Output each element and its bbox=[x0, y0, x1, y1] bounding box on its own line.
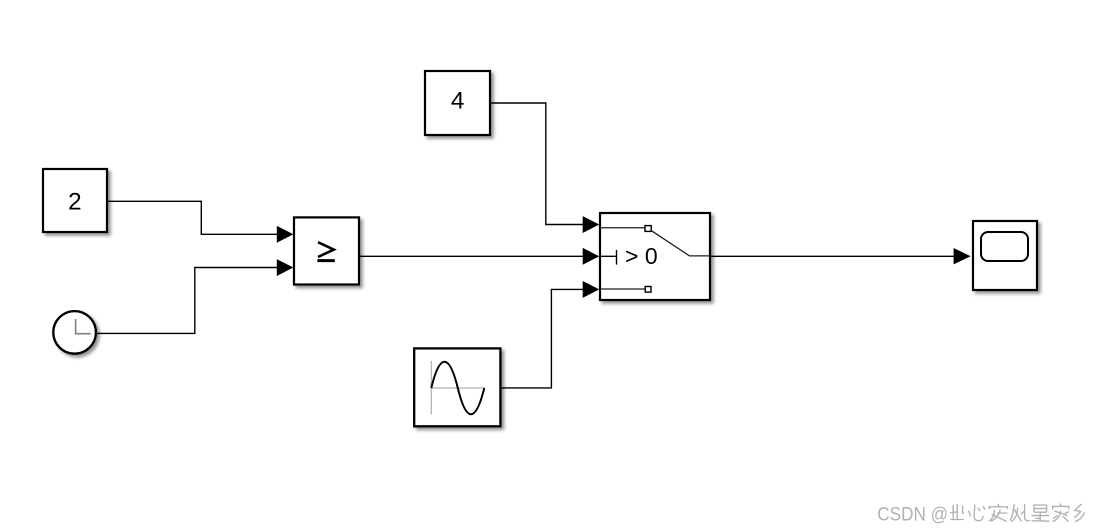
clock block bbox=[53, 311, 96, 354]
switch block with criteria > 0 bbox=[600, 213, 710, 300]
scope screen bbox=[981, 232, 1028, 261]
wire from sine wave to switch input 3 bbox=[501, 289, 584, 388]
sine wave block bbox=[414, 348, 500, 426]
wire from clock to relational operator input 2 bbox=[97, 268, 278, 334]
watermark CJK glyph an bbox=[989, 504, 1007, 522]
svg-text:> 0: > 0 bbox=[625, 243, 658, 269]
wire from switch output to scope bbox=[709, 255, 955, 257]
constant block C2 value 4 bbox=[425, 71, 490, 135]
watermark CJK glyph jia bbox=[1053, 504, 1069, 522]
arrowhead at relational operator input 2 bbox=[277, 259, 294, 276]
switch internal port 3 line bbox=[601, 288, 645, 290]
sine icon curve bbox=[431, 362, 484, 414]
switch internal port 1 line bbox=[601, 227, 645, 229]
switch selector diagonal bbox=[652, 231, 710, 256]
svg-text:CSDN @: CSDN @ bbox=[877, 504, 948, 526]
switch internal port 3 square bbox=[645, 287, 651, 293]
greater-or-equal symbol bbox=[318, 242, 334, 257]
clock hands bbox=[76, 319, 91, 334]
sine icon axes bbox=[431, 361, 484, 415]
svg-text:2: 2 bbox=[68, 188, 82, 215]
arrowhead at scope input bbox=[954, 248, 971, 264]
arrowhead at relational operator input 1 bbox=[277, 226, 294, 243]
switch internal port 1 square bbox=[645, 226, 651, 232]
constant block C1 value 2 bbox=[43, 169, 107, 232]
scope block bbox=[973, 221, 1037, 290]
watermark CJK glyph xiang bbox=[1074, 504, 1084, 522]
watermark CJK glyph ci bbox=[950, 504, 964, 520]
wire from constant 2 to relational operator input 1 bbox=[107, 201, 278, 234]
relational operator block >= bbox=[294, 217, 359, 284]
wire from constant 4 to switch input 1 bbox=[490, 103, 584, 225]
arrowhead at switch input 1 bbox=[583, 216, 600, 233]
svg-text:4: 4 bbox=[451, 88, 465, 115]
switch internal port 2 line with tick bbox=[601, 250, 617, 265]
watermark CJK glyph chu bbox=[1010, 504, 1029, 522]
watermark CJK glyph shi bbox=[1031, 505, 1049, 521]
arrowhead at switch input 2 bbox=[583, 248, 600, 265]
watermark CJK glyph xin bbox=[968, 505, 984, 521]
arrowhead at switch input 3 bbox=[583, 281, 600, 298]
wire from relational operator output to switch input 2 bbox=[358, 255, 584, 257]
